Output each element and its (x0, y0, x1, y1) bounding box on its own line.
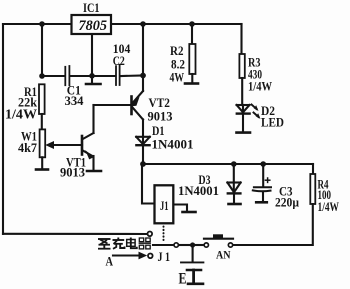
svg-text:7805: 7805 (79, 18, 108, 34)
diode D1 (136, 137, 150, 145)
LED D2 arrows (252, 105, 259, 118)
capacitor C1 (65, 66, 69, 85)
battery E lower I-beam (187, 269, 201, 272)
svg-text:C2: C2 (113, 54, 125, 68)
svg-text:IC1: IC1 (83, 1, 100, 15)
VT1 emitter arrowhead (points out, down-right) (85, 150, 93, 159)
wire R3 to D2 (241, 78, 243, 105)
wire VT2 base from VT1 collector (94, 104, 132, 106)
wire top rail (3, 23, 242, 25)
svg-text:LED: LED (261, 115, 284, 129)
junction node dots (39, 21, 266, 247)
ground bar D3 (229, 203, 241, 206)
wire W1 bottom (41, 157, 43, 168)
svg-text:R2: R2 (170, 44, 184, 58)
svg-text:1/4W: 1/4W (318, 200, 340, 214)
svg-text:9013: 9013 (60, 166, 85, 180)
VT2 emitter arrowhead (points into base bar) (132, 97, 140, 107)
capacitor C3 plus sign (265, 178, 269, 182)
battery E top plate (181, 261, 203, 263)
svg-text:1/4W: 1/4W (248, 80, 272, 94)
charger terminal upper (148, 232, 153, 237)
battery E lead (192, 245, 194, 261)
wire VT2 emitter to D1 (142, 120, 144, 146)
svg-text:D1: D1 (152, 124, 165, 138)
capacitor C3 plates (254, 186, 271, 188)
dashed link relay to contact (163, 227, 165, 244)
wire relay left leg (142, 164, 154, 204)
wire bottom-left rail to charger terminal (3, 233, 147, 235)
ground bar VT1 emitter (87, 170, 101, 173)
wire R3 drop from rail (240, 24, 242, 54)
svg-text:334: 334 (65, 94, 85, 108)
wire R1 branch drop (41, 24, 43, 76)
resistor R3 (239, 54, 244, 78)
wire C3 bottom (262, 192, 264, 202)
transistor VT2 (132, 91, 144, 120)
wire relay right leg (174, 205, 187, 212)
relay contact J1 arm (153, 244, 173, 246)
wire R4 bottom to AN (234, 204, 313, 245)
resistor R2 lead (191, 24, 193, 44)
wire battery node to AN (195, 244, 204, 246)
svg-text:220µ: 220µ (275, 195, 299, 209)
wire to R4 top (312, 164, 314, 174)
wire R1 to W1 (41, 114, 43, 129)
resistor R4 (310, 174, 315, 204)
svg-text:J 1: J 1 (158, 250, 171, 264)
wire IC1 ground pin (91, 34, 93, 83)
ground bar relay (183, 211, 196, 214)
wire D3 bottom (233, 193, 235, 203)
ground bar W1 (36, 168, 48, 171)
ground bar under IC1 pin (86, 83, 101, 86)
wire D1 to node (142, 145, 144, 164)
svg-text:4k7: 4k7 (18, 141, 37, 155)
svg-text:1/4W: 1/4W (5, 106, 38, 121)
svg-text:VT2: VT2 (149, 96, 171, 110)
wire R2 bottom (191, 74, 193, 83)
char 电 (127, 238, 137, 249)
char 器 (139, 238, 151, 249)
W1 wiper arrowhead (45, 141, 54, 149)
capacitor C2 (116, 65, 120, 85)
svg-text:1N4001: 1N4001 (152, 138, 194, 152)
wire VT1 base / W1 wiper (50, 144, 82, 146)
terminal A circle (148, 254, 153, 259)
wire bypass line y76 (42, 75, 64, 77)
svg-text:1N4001: 1N4001 (178, 184, 219, 198)
wire VT1 emitter drop (92, 156, 94, 170)
svg-text:E: E (179, 271, 187, 288)
wire VT2 collector drop (142, 24, 144, 91)
pushbutton AN (204, 243, 208, 247)
diode D3 lead (233, 164, 235, 193)
ground bar C3 (256, 201, 267, 204)
svg-text:J1: J1 (160, 199, 169, 213)
wire left rail (2, 24, 4, 234)
relay coil J1 box (155, 185, 174, 223)
char 充 (113, 238, 125, 249)
wire VT1 collector riser (92, 105, 94, 133)
svg-text:9013: 9013 (148, 110, 173, 124)
ground bar D2 (237, 131, 251, 134)
wire D2 bottom (242, 105, 244, 132)
transistor VT1 (82, 133, 94, 156)
label 至充电器 (to charger), hand-drawn strokes (98, 238, 151, 249)
IC1 7805 box (72, 15, 112, 34)
terminal A arrow (113, 254, 140, 256)
char 至 (98, 239, 111, 249)
diode D3 (227, 183, 240, 194)
ground bar R2 (185, 82, 198, 85)
resistor R2 (189, 44, 195, 74)
svg-text:AN: AN (216, 249, 231, 261)
resistor R1 (39, 84, 45, 114)
LED D2 (237, 105, 250, 114)
svg-text:A: A (106, 253, 114, 268)
svg-text:4W: 4W (170, 70, 185, 84)
capacitor C3 lead (262, 164, 264, 186)
potentiometer W1 (40, 129, 46, 157)
wire mid rail y164 (143, 163, 313, 165)
